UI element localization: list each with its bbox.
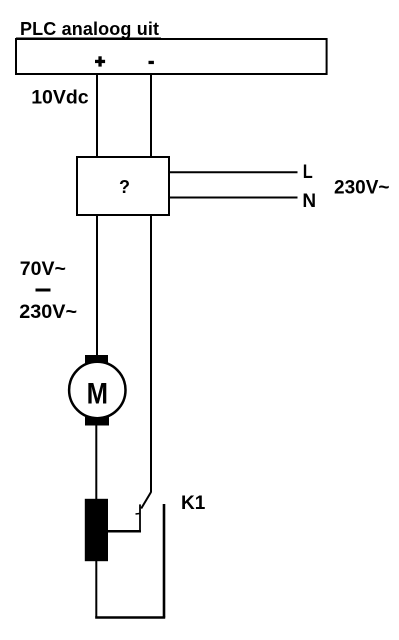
switch K1 arrow tick <box>136 513 140 516</box>
svg-text:L: L <box>303 162 313 183</box>
switch K1 wiper stub <box>139 504 141 532</box>
motor M body circle <box>69 362 125 418</box>
wire: N mains line <box>169 197 298 199</box>
label dash (range) <box>36 289 51 292</box>
wire: - terminal to controller box <box>150 75 152 157</box>
svg-text:N: N <box>302 191 316 212</box>
svg-text:70V~: 70V~ <box>20 258 66 280</box>
switch K1 blade <box>141 492 151 508</box>
svg-text:M: M <box>87 377 108 410</box>
svg-text:10Vdc: 10Vdc <box>31 86 89 108</box>
label: PLC analoog uit (underlined title) <box>16 19 161 39</box>
PLC analog output module box <box>16 39 327 74</box>
wire: rheostat tap to switch <box>108 530 141 533</box>
wire: + terminal to controller box <box>96 75 98 157</box>
wire: bottom return <box>95 616 165 619</box>
wire: rheostat bottom down <box>95 561 97 618</box>
motor M top brush <box>85 355 108 364</box>
controller box U? <box>77 157 169 215</box>
wire: motor to rheostat <box>95 425 97 500</box>
svg-text:230V~: 230V~ <box>19 301 77 323</box>
switch K1 fixed contact <box>163 504 166 618</box>
motor M bottom brush <box>85 417 109 426</box>
rheostat body (black rectangle) <box>85 499 108 561</box>
svg-text:?: ? <box>119 177 130 197</box>
svg-text:PLC analoog uit: PLC analoog uit <box>20 19 159 39</box>
wire: controller box to switch K1 <box>150 215 152 493</box>
wire: controller box to motor <box>96 215 98 356</box>
svg-text:K1: K1 <box>181 493 206 514</box>
terminal label - <box>149 61 154 64</box>
svg-text:230V~: 230V~ <box>334 178 389 199</box>
terminal label + <box>95 56 105 66</box>
wire: L mains line <box>169 171 298 173</box>
